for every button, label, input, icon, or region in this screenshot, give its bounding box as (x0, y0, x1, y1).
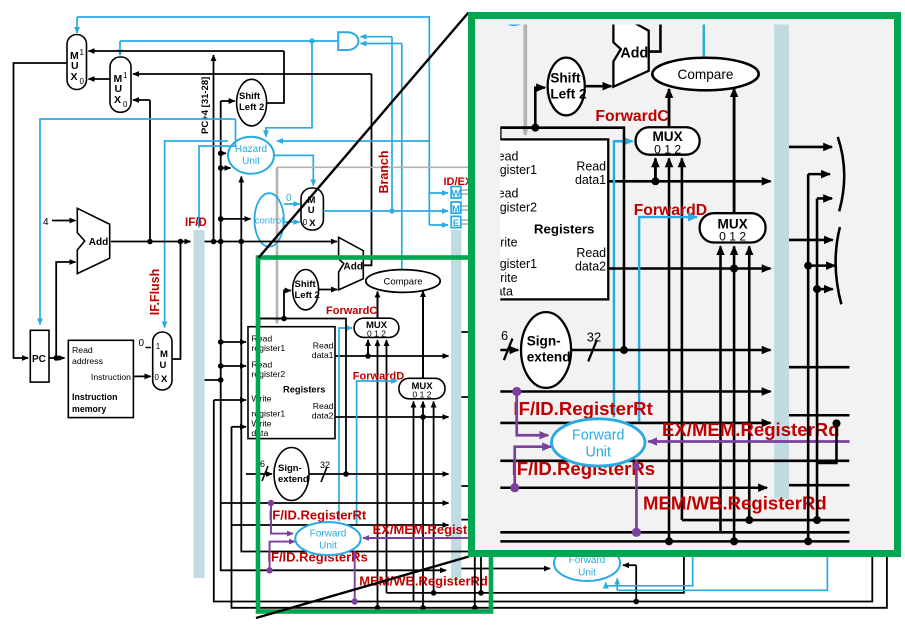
mux C (forwardC) (354, 318, 399, 337)
wire: cyan forwardB up into unit (616, 579, 618, 591)
highlight rectangle (region of interest) (258, 258, 491, 612)
svg-text:W: W (452, 189, 461, 200)
svg-text:Unit: Unit (578, 568, 596, 579)
wire: cyan control feed lower (429, 224, 448, 226)
svg-text:PC: PC (32, 354, 46, 365)
wire: alu input line 1 (461, 331, 491, 333)
svg-text:X: X (71, 71, 78, 83)
svg-text:data1: data1 (312, 350, 334, 360)
node: cyan junction and output (309, 38, 314, 43)
wire: ex forward column B (480, 368, 482, 593)
svg-text:0: 0 (286, 193, 292, 204)
wire: rt compare bus (221, 502, 449, 504)
mux stall (control zero) (301, 188, 323, 230)
node: read data1 tap (365, 353, 371, 359)
wire: instruction output to fetch mux (133, 375, 150, 377)
svg-text:Read: Read (251, 360, 272, 370)
node: instr tap r1 (218, 339, 224, 345)
wire: cyan hazard line from right (277, 140, 429, 142)
control oval (cyan) (255, 193, 284, 246)
svg-text:Unit: Unit (319, 541, 337, 552)
mux M1 (pc source) (67, 35, 87, 90)
wire: jump target riser (267, 51, 285, 103)
svg-text:U: U (308, 205, 315, 216)
svg-text:E: E (453, 218, 459, 229)
wire: write data input (232, 426, 247, 428)
wire: cyan forwardD signal (357, 381, 397, 524)
wire: instruction stub from IF/ID (205, 379, 221, 381)
svg-text:0: 0 (303, 218, 308, 227)
callout diagonal bottom (256, 557, 469, 619)
wire: read data1 line (335, 355, 449, 357)
wire: cyan control outputs to stall mux (284, 203, 300, 205)
wire: cyan pcwrite loop (40, 119, 236, 325)
wire: muxC input1 riser (377, 340, 379, 608)
wire: and gate input 1 (361, 36, 393, 38)
svg-text:0: 0 (123, 100, 128, 109)
node: instr junction on fetch line (218, 239, 224, 245)
callout diagonal top (259, 13, 469, 258)
wire: write register input (214, 399, 246, 401)
wire: muxD output to compare (422, 291, 424, 378)
wire: purple mem/wb rd into forward unit bottom (354, 551, 356, 602)
WB box stub wires (461, 190, 470, 194)
node: purple rs tap (266, 567, 272, 573)
wire: branch target riser from Add (363, 74, 371, 265)
node: purple rt tap (268, 500, 274, 506)
wire: rt field vertical to hazard unit bottom (240, 177, 242, 426)
alu left bracket upper (496, 325, 501, 377)
svg-text:Read: Read (72, 345, 93, 355)
wire: arrow into hazard unit left (221, 152, 226, 154)
wire: zero stub into fetch mux (146, 347, 152, 349)
wire: cyan junction down to hazard unit top (266, 41, 312, 137)
svg-text:PC+4 [31-28]: PC+4 [31-28] (200, 77, 211, 134)
svg-text:Left 2: Left 2 (239, 102, 264, 113)
svg-text:Add: Add (344, 262, 363, 273)
node: pc output junction (53, 355, 59, 361)
wire: 4 into Add1 (52, 220, 76, 222)
wire: shift left 2 output into Add2 (319, 289, 338, 291)
node: instr junction to hazard 2 (218, 165, 224, 171)
svg-text:U: U (160, 360, 167, 371)
svg-text:1: 1 (123, 71, 128, 80)
wire: instruction into shift left 2 (jump) (221, 100, 235, 102)
wire: mem/wb rd into forward unit 2 right (623, 564, 636, 566)
wire: cyan second select line (120, 40, 312, 42)
inset magnified content (reuse of main drawing, scaled 1.43x) (149, 0, 905, 545)
wire: mux M2 output into mux M1 (89, 78, 111, 80)
svg-text:Registers: Registers (283, 385, 325, 395)
hazard unit oval (228, 137, 274, 174)
sign extend oval (274, 448, 309, 501)
svg-text:Compare: Compare (383, 277, 422, 288)
compare oval (366, 270, 440, 293)
adder Add2 (branch target) (339, 237, 364, 290)
svg-text:X: X (114, 94, 121, 106)
wire: purple ex/mem rd into forward unit (363, 537, 585, 539)
wire: cyan control feed upper (429, 192, 448, 194)
wire: pc+4 feedback riser (149, 100, 151, 242)
wire: instruction bus vertical (221, 101, 446, 570)
wire: instruction line right of IF/ID to branch adder (205, 241, 338, 243)
wire: cyan hazard to fetch mux select (165, 141, 228, 328)
svg-text:X: X (161, 374, 168, 385)
wire: alu input line 3 (481, 367, 492, 369)
svg-text:extend: extend (278, 474, 309, 485)
wire: purple rt into forward unit (271, 503, 293, 534)
wire: immediate hook into shift left 2 (260, 291, 291, 319)
wire: mem input line 1 (461, 396, 492, 398)
wire: muxC input2 riser (386, 340, 388, 593)
node: instr junction to control (218, 216, 224, 222)
svg-text:X: X (309, 218, 316, 229)
shift left 2 oval (branch) (293, 270, 319, 310)
svg-text:data2: data2 (312, 411, 334, 421)
node: rt junction on fetch line (239, 239, 245, 245)
wire: arrow into control oval (221, 218, 251, 220)
node: read data2 tap (420, 414, 426, 420)
wire: mem input line 2 (475, 414, 494, 416)
wire: jump target into mux M1 (89, 50, 285, 52)
inset magnifier box (468, 12, 901, 557)
wire: sign extend output (309, 473, 449, 475)
node: pc+4 junction (147, 239, 153, 245)
box M (451, 202, 461, 213)
wire: pc+4 field vertical with up arrow (213, 55, 215, 242)
node: colB dot (478, 429, 484, 435)
svg-text:Read: Read (313, 401, 334, 411)
node: instr tap r2 (218, 363, 224, 369)
wire: branch target into mux M2 (133, 73, 372, 75)
node: fetch mux output junction (178, 239, 184, 245)
gray instruction path arrow (277, 166, 520, 168)
mux M2 (jump/branch) (110, 57, 131, 112)
wire: ex forward column A (474, 351, 476, 608)
wire: rs hook vertical (214, 400, 873, 602)
node: bottom dots on wb line (633, 599, 639, 605)
svg-text:control: control (255, 216, 284, 227)
svg-text:0: 0 (80, 77, 85, 86)
wire: pc to instruction memory (49, 357, 65, 359)
adder Add1 (pc+4) (77, 208, 109, 273)
svg-text:IF/ID.RegisterRt: IF/ID.RegisterRt (269, 508, 367, 523)
wire: muxC output to compare (377, 292, 379, 319)
svg-text:0 1 2: 0 1 2 (413, 390, 432, 400)
node: purple mem/wb tap (352, 598, 358, 604)
svg-text:Unit: Unit (242, 156, 260, 167)
mux D (forwardD) (399, 378, 445, 399)
svg-text:Branch: Branch (377, 150, 391, 193)
svg-text:0: 0 (139, 338, 145, 349)
wire: rt2 hook to lower pass bus (241, 425, 503, 552)
wire: muxD input0 riser (413, 402, 415, 602)
wire: immediate into sign extend (246, 473, 272, 475)
wire: line into forward unit 2 (461, 568, 550, 570)
svg-text:Read: Read (251, 334, 272, 344)
wire: read data2 up into muxD (422, 402, 424, 608)
node: shift hook junction (281, 316, 287, 322)
wire: and gate input 2 (361, 43, 402, 45)
svg-text:32: 32 (320, 460, 330, 470)
node: cyan junction branch signal (389, 208, 394, 213)
wire: rd hook vertical (232, 427, 887, 608)
svg-text:0: 0 (155, 373, 160, 382)
svg-text:Shift: Shift (295, 279, 317, 290)
box E (451, 216, 461, 227)
node: sign extend out tap (343, 471, 349, 477)
instruction memory box (68, 340, 133, 417)
svg-text:Write: Write (251, 394, 271, 404)
wire: arrow into hazard unit lower left (221, 167, 231, 169)
alu left bracket lower (494, 388, 498, 442)
svg-text:Left 2: Left 2 (295, 290, 320, 301)
svg-text:M: M (160, 349, 168, 360)
pipeline register ID/EX (451, 230, 461, 578)
svg-text:Instruction: Instruction (91, 372, 131, 382)
svg-text:IF.Flush: IF.Flush (148, 269, 162, 316)
wire: cyan forwardC signal (339, 328, 352, 521)
svg-text:0 1 2: 0 1 2 (367, 329, 386, 339)
svg-text:Sign-: Sign- (278, 463, 302, 474)
svg-text:Forward: Forward (310, 529, 347, 540)
shift left 2 oval (jump) (237, 79, 267, 126)
wire: read data2 line (335, 416, 449, 418)
wire: fetch mux output riser to IF/ID (172, 242, 181, 360)
registers box (248, 327, 335, 439)
wire: immediate to shift-left-2 riser (260, 319, 347, 475)
wire: read register2 input (221, 365, 246, 367)
wire: mux M1 output to PC (14, 63, 68, 358)
svg-text:Add: Add (89, 237, 108, 248)
wire: compare result vertical to and gate (401, 44, 403, 271)
wire: cyan arrow into mux M1 top (76, 17, 78, 33)
node: colA dot (472, 412, 478, 418)
svg-text:Instruction: Instruction (72, 392, 117, 402)
wire: and gate output to junction (312, 40, 338, 42)
pipeline register IF/ID (194, 230, 205, 578)
wire: cyan forwardA up into unit (605, 583, 607, 586)
wire: muxD input2 riser (433, 402, 435, 593)
wire: mem input line 3 (481, 430, 492, 432)
wire: read register1 input (221, 341, 246, 343)
node: instr junction to hazard 1 (218, 151, 224, 157)
mux fetch (flush zero) (153, 332, 172, 390)
wire: cyan ifidwrite loop (199, 119, 236, 228)
node: dots on lowest line (375, 605, 381, 611)
svg-text:1: 1 (80, 48, 85, 57)
svg-text:MEM/WB.RegisterRd: MEM/WB.RegisterRd (359, 574, 488, 589)
svg-text:Hazard: Hazard (235, 144, 267, 155)
svg-text:M: M (452, 204, 460, 215)
wire: Add1 output pc+4 line into IF/ID (111, 241, 191, 243)
svg-text:address: address (72, 356, 104, 366)
svg-text:ForwardC: ForwardC (326, 305, 377, 317)
and gate U1 (cyan) (338, 32, 358, 50)
wire: ID/EX right stubs (461, 486, 505, 520)
wire: pc+4 into mux M2 lower input (133, 99, 150, 101)
node: junction pc+4 on instruction line (211, 239, 217, 245)
svg-text:4: 4 (43, 217, 49, 228)
wire: rs compare bus (231, 524, 449, 526)
box W (451, 187, 461, 199)
svg-text:memory: memory (72, 404, 106, 414)
wire: cyan top flush line (77, 17, 429, 225)
svg-text:Shift: Shift (239, 91, 261, 102)
wire: cyan stall mux output to ID/EX WME (323, 210, 448, 212)
wire: purple rs into forward unit (270, 542, 295, 571)
wire: cyan hazard unit to control mux (274, 155, 313, 185)
svg-text:Write: Write (251, 419, 271, 429)
wire: alu input line 2 (475, 350, 490, 352)
wire: read data1 up into muxC input0 (367, 340, 369, 356)
node: instr stub tap (218, 377, 224, 383)
wire: cyan arrow into mux M2 top (119, 41, 121, 56)
svg-text:IF/D: IF/D (185, 217, 207, 229)
wire: branch signal vertical (391, 37, 393, 211)
register PC (30, 330, 49, 382)
forward unit oval (ID) (295, 522, 360, 555)
wire: pc into Add1 lower input (56, 262, 75, 358)
forward unit (EX, bottom) (554, 545, 620, 581)
svg-text:Read: Read (313, 341, 334, 351)
